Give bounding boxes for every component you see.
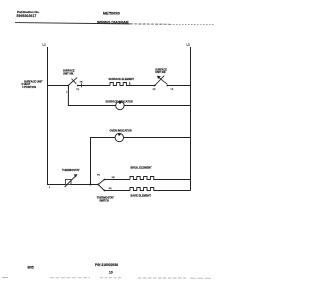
wire: surface indicator row right segment xyxy=(124,105,190,107)
resistor: broil element xyxy=(130,166,157,180)
svg-text:OVEN INDICATOR: OVEN INDICATOR xyxy=(110,128,132,132)
wire: bottom row from L1 bus to thermostat xyxy=(48,184,66,186)
svg-text:WIRING DIAGRAM: WIRING DIAGRAM xyxy=(97,20,129,24)
switch S3 oven selector switch xyxy=(97,174,116,202)
svg-text:BROIL ELEMENT: BROIL ELEMENT xyxy=(131,166,153,170)
lamp: surface indicator xyxy=(106,100,133,110)
switch S2 surface unit switch (right) xyxy=(153,68,174,91)
node: junction of oven indicator drop xyxy=(90,184,92,186)
svg-text:SURFACE INDICATOR: SURFACE INDICATOR xyxy=(106,100,133,104)
wire: bottom row thermostat to junction xyxy=(71,184,98,186)
label: surface unit switch description xyxy=(22,80,43,89)
resistor: bake element xyxy=(130,188,158,198)
svg-text:SWITCH: SWITCH xyxy=(99,199,109,202)
wire: broil branch right segment to L2 xyxy=(157,179,191,181)
svg-text:4 POSITION: 4 POSITION xyxy=(22,86,36,89)
svg-text:8/95: 8/95 xyxy=(28,266,34,270)
switch S1 surface unit switch (left) xyxy=(63,70,83,94)
wire: bake branch right segment to L2 bottom xyxy=(158,190,191,192)
svg-text:THERMOSTAT: THERMOSTAT xyxy=(62,168,80,172)
footer cut marks xyxy=(2,277,212,280)
wire: broil branch left segment xyxy=(105,179,131,181)
svg-text:L1: L1 xyxy=(43,43,47,47)
resistor: surface element xyxy=(109,77,135,86)
svg-text:5995303617: 5995303617 xyxy=(17,14,37,18)
svg-text:ME7500X9: ME7500X9 xyxy=(103,12,120,16)
svg-text:P/N 316002938: P/N 316002938 xyxy=(95,263,118,267)
svg-text:L2: L2 xyxy=(187,43,191,47)
wire: oven indicator row right segment xyxy=(124,137,191,139)
svg-text:BAKE ELEMENT: BAKE ELEMENT xyxy=(131,193,152,197)
lamp: oven indicator xyxy=(110,128,132,141)
wire: right vertical bus L2 xyxy=(190,47,192,191)
wire: top row right segment to L2 xyxy=(167,85,190,87)
node L2 xyxy=(187,43,191,47)
wire: drop from surface unit switch to surface indicator row xyxy=(68,86,115,106)
header publication number xyxy=(17,10,40,18)
wire: top row left segment L1 to surface unit switch xyxy=(48,85,69,87)
thermostat TH1 xyxy=(49,168,80,189)
wire: left vertical bus L1 xyxy=(47,47,49,185)
svg-text:UNIT SW.: UNIT SW. xyxy=(155,71,166,74)
wire: oven indicator row left corner and drop xyxy=(91,138,116,185)
node L1 xyxy=(43,43,47,47)
svg-text:UNIT SW.: UNIT SW. xyxy=(63,72,74,75)
wire: top row middle segment to surface element xyxy=(78,85,110,87)
header rule xyxy=(15,23,215,25)
wire: bake branch left segment xyxy=(105,190,131,192)
wire: top row segment element to right switch xyxy=(130,85,155,87)
svg-text:SURFACE ELEMENT: SURFACE ELEMENT xyxy=(109,77,135,81)
svg-text:10: 10 xyxy=(109,271,113,275)
